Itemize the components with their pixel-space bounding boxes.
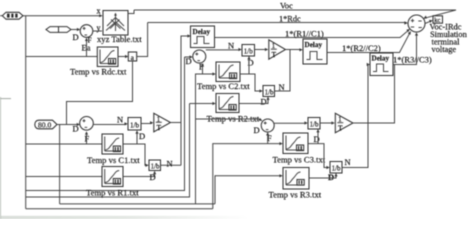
svg-text:T: T — [338, 124, 343, 133]
wire: temp riser for sum3 D — [195, 119, 197, 204]
wire: gain a output up to 1*Rdc net — [137, 23, 148, 57]
wire: into S3 D input — [196, 119, 262, 120]
svg-text:Voc: Voc — [280, 2, 293, 11]
svg-text:D: D — [73, 32, 79, 42]
wire: 1*(R1//C1) net to output summer — [215, 30, 410, 38]
wire: S4 output to probe — [425, 21, 432, 24]
wire: temp riser into R2 input — [190, 103, 215, 105]
wire: C2 output to D2b numerator — [240, 74, 262, 91]
wire: D3b output riser up — [342, 65, 368, 168]
svg-text:Temp vs C3.txt: Temp vs C3.txt — [273, 155, 326, 165]
Temp vs C1 lookup table — [102, 134, 123, 154]
op-amp T1 gain 1/T — [154, 113, 171, 132]
wire: D1a output to amp T1 — [141, 123, 152, 125]
svg-text:80.0: 80.0 — [38, 121, 51, 130]
wire: temp bus bottom branch through Temp vs R1 label — [26, 57, 185, 191]
svg-text:1/b: 1/b — [151, 162, 160, 170]
svg-text:1*(R1//C1): 1*(R1//C1) — [285, 28, 324, 38]
wire: temp riser into C3 input — [213, 144, 282, 209]
Temp vs R2 lookup table — [216, 94, 239, 113]
wire: bottom temp distribution — [60, 203, 215, 205]
svg-text:D: D — [261, 97, 267, 107]
current sensor capsule — [46, 27, 71, 33]
delay block DL2 — [303, 39, 327, 64]
wire: D3a output to amp T3 — [320, 122, 334, 124]
wire: F feedback up into S1 — [86, 133, 88, 145]
op-amp T3 gain 1/T — [335, 113, 353, 132]
wire: 80.0 to summer S1 — [57, 124, 79, 126]
svg-text:D: D — [328, 172, 334, 182]
svg-text:1*(R3//C3): 1*(R3//C3) — [393, 55, 432, 65]
Temp vs C3 lookup table — [283, 133, 308, 154]
wire: capsule to summer S0 — [71, 29, 79, 31]
svg-text:1/b: 1/b — [265, 88, 274, 96]
svg-text:voltage: voltage — [432, 45, 457, 54]
wire: C1 output to D1a denominator and D1b numerator — [123, 144, 148, 165]
wire: F feedback up into S2 — [202, 65, 204, 75]
probe kc — [433, 16, 443, 24]
divider block D3a — [308, 118, 320, 130]
node: temperature bus junction — [25, 16, 27, 209]
wire: R3 output to D3b denominator — [309, 174, 336, 178]
constant 80.0 — [35, 120, 57, 129]
svg-text:N: N — [117, 115, 123, 125]
svg-text:Temp vs R3.txt: Temp vs R3.txt — [269, 190, 322, 200]
wire: T1 output riser to Delay1 — [171, 36, 190, 165]
svg-text:Temp vs Rdc.txt: Temp vs Rdc.txt — [70, 67, 127, 77]
svg-text:1/b: 1/b — [310, 121, 319, 129]
wire: temp bus bottom branch 2 — [26, 104, 190, 198]
wire: temp bus branch to Temp vs Rdc table — [26, 56, 97, 58]
svg-text:D: D — [150, 172, 156, 182]
wire: C2 output up into D2a — [248, 57, 250, 74]
wire: S2 output to divider D2a — [206, 49, 241, 51]
xyz Table block U1 — [103, 11, 128, 36]
wire: F feedback up into S3 — [267, 133, 269, 143]
input port tag TEMP (top-left) — [2, 12, 23, 19]
wire: 1*Rdc net to output summer — [148, 22, 407, 24]
wire: Voc net to output summer — [134, 10, 456, 18]
wire: C3 output up into D3a — [317, 130, 319, 143]
wire: xyz table output to Voc line — [128, 10, 134, 14]
wire: gain a bottom tap to Ea distribution — [60, 61, 133, 204]
wire: S0 to xyz table y-input — [93, 30, 102, 32]
scan edge artifact left — [0, 97, 2, 219]
divider block D2b — [263, 86, 275, 97]
svg-text:y: y — [97, 24, 101, 33]
svg-text:N: N — [345, 157, 351, 167]
wire: T2 output to Delay2 — [286, 49, 302, 51]
Temp vs Rdc lookup table — [97, 47, 118, 67]
Temp vs R1 lookup table — [102, 167, 123, 187]
output summer S4 — [408, 15, 425, 32]
svg-text:Delay: Delay — [305, 41, 323, 49]
summer S1 — [80, 117, 94, 131]
divider block D3b — [330, 162, 342, 174]
svg-text:1/b: 1/b — [130, 122, 139, 130]
svg-text:Temp vs R1.txt: Temp vs R1.txt — [86, 188, 139, 198]
svg-text:D: D — [73, 124, 79, 134]
wire: R2 output to D2b denominator — [239, 98, 268, 104]
svg-text:1*(R2//C2): 1*(R2//C2) — [342, 43, 381, 53]
scan artifact bottom band — [0, 216, 250, 219]
wire: Rdc table to gain a — [118, 56, 127, 58]
svg-text:1/b: 1/b — [244, 48, 253, 56]
wire: temp bus branch to Temp vs C1 table — [26, 143, 102, 145]
divider block D1b — [149, 160, 161, 171]
gain block a (I*Rdc) — [128, 52, 136, 62]
wire: temp bus branch to Temp vs R1 table — [26, 176, 102, 178]
Temp vs R3 lookup table — [283, 168, 309, 190]
wire: S1 output to divider D1a — [93, 124, 127, 126]
summer S2 — [193, 50, 206, 63]
wire: temp riser into R3 input — [215, 176, 282, 204]
wire: C1 output up into D1a — [136, 132, 138, 145]
wire: S3 output to divider D3a — [274, 122, 306, 124]
svg-text:Delay: Delay — [193, 28, 211, 36]
svg-text:Delay: Delay — [372, 55, 390, 63]
divider block D2a — [242, 45, 255, 57]
wire: C3 output to D3b numerator — [308, 144, 329, 168]
delay block DL1 — [191, 26, 215, 48]
wire: temp riser into C2 input — [196, 74, 215, 119]
svg-text:xyz Table.txt: xyz Table.txt — [97, 34, 142, 44]
delay block DL3 — [370, 53, 393, 76]
summer S3 — [261, 119, 274, 132]
Temp vs C2 lookup table — [216, 62, 240, 82]
wire: T3 output riser to Delay3 output net — [353, 65, 395, 124]
svg-text:N: N — [167, 158, 173, 168]
wire: D1b output riser to branch2 numerator net — [161, 164, 182, 166]
svg-text:Temp vs C1.txt: Temp vs C1.txt — [87, 155, 140, 165]
wire: D2a output to amp T2 — [255, 49, 268, 51]
svg-text:Temp vs C2.txt: Temp vs C2.txt — [197, 81, 250, 91]
svg-text:D: D — [314, 134, 320, 144]
svg-text:D: D — [139, 131, 145, 141]
wire: tag left stub — [0, 15, 2, 17]
divider block D1a — [128, 118, 141, 131]
op-amp T2 gain 1/T — [269, 40, 286, 59]
svg-text:1*Rdc: 1*Rdc — [279, 15, 301, 24]
wire: 1*(R2//C2) net to output summer — [327, 32, 410, 52]
wire: bottom temp distribution 2 — [26, 208, 213, 210]
svg-text:T: T — [157, 123, 162, 132]
wire: D3b output riser to Delay3 input — [367, 64, 370, 66]
svg-text:D: D — [254, 125, 260, 135]
wire: into S2 D input — [185, 56, 192, 58]
wire: tag to xyz table x-input — [23, 15, 101, 17]
summer S0 (Ea junction) — [80, 25, 93, 38]
wire: Ea feedback up into S0 — [86, 39, 88, 57]
svg-text:N: N — [228, 40, 234, 50]
wire: R1 output to D1b denominator — [123, 172, 155, 177]
wire: 1*(R3//C3) net to output summer bottom — [393, 34, 417, 65]
svg-text:x: x — [97, 7, 101, 16]
svg-text:T: T — [272, 50, 277, 59]
wire: D2b output riser to branch wire — [275, 50, 291, 91]
